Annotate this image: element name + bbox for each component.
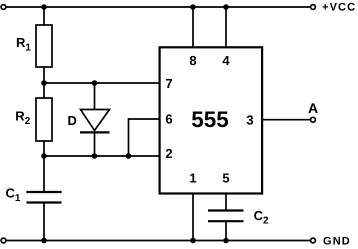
wire pin8 to rail <box>192 7 194 48</box>
wire C1 top lead <box>43 156 45 192</box>
wire pin6 bend <box>129 119 162 156</box>
svg-text:5: 5 <box>222 171 229 186</box>
svg-text:GND: GND <box>323 235 351 247</box>
wire C2 bottom lead <box>225 221 227 240</box>
terminal bottom-left <box>1 238 6 243</box>
svg-text:A: A <box>308 100 318 116</box>
svg-text:555: 555 <box>191 107 229 132</box>
capacitor C1 top plate <box>27 191 62 193</box>
wire C1 bottom lead <box>43 203 45 241</box>
capacitor C1 bottom plate <box>27 201 62 203</box>
junction pin4 rail <box>223 4 229 10</box>
op-amp U1 555 body <box>160 47 263 193</box>
svg-text:3: 3 <box>246 112 253 127</box>
wire top +VCC rail <box>6 6 310 8</box>
junction pin8 rail <box>190 4 196 10</box>
resistor R1 <box>36 25 52 67</box>
wire pin7 horizontal <box>44 82 161 84</box>
junction C2 ground <box>223 238 229 244</box>
wire R1 bottom lead <box>43 67 45 98</box>
terminal top-left <box>1 5 6 10</box>
diode D triangle <box>81 110 110 131</box>
terminal GND <box>311 238 316 243</box>
svg-text:+VCC: +VCC <box>322 2 356 14</box>
junction C1 ground <box>41 238 47 244</box>
svg-text:8: 8 <box>189 53 196 68</box>
junction diode bottom <box>92 153 98 159</box>
wire pin5 to C2 <box>225 193 227 211</box>
diode D anode lead <box>94 83 96 110</box>
svg-text:2: 2 <box>165 146 172 161</box>
resistor R2 <box>36 98 52 141</box>
svg-text:D: D <box>68 113 77 128</box>
wire pin4 to rail <box>225 7 227 48</box>
wire pin2 horizontal <box>44 155 161 157</box>
svg-text:1: 1 <box>189 171 196 186</box>
junction R2-C1 <box>41 153 47 159</box>
svg-text:4: 4 <box>222 53 230 68</box>
junction pin6 bottom <box>126 153 132 159</box>
wire pin1 to ground <box>192 193 194 241</box>
junction diode top <box>92 80 98 86</box>
diode D cathode lead <box>94 132 96 156</box>
wire bottom GND rail <box>6 240 310 242</box>
wire R1 top lead <box>43 7 45 25</box>
wire R2 bottom lead <box>43 141 45 156</box>
junction pin1 ground <box>190 238 196 244</box>
capacitor C2 bottom plate <box>208 220 244 222</box>
terminal +VCC <box>311 5 316 10</box>
terminal A <box>311 117 316 122</box>
svg-text:6: 6 <box>165 112 172 127</box>
junction R1 rail <box>41 4 47 10</box>
junction R1-R2 <box>41 80 47 86</box>
capacitor C2 top plate <box>208 209 244 211</box>
diode D cathode bar <box>80 131 110 133</box>
svg-text:7: 7 <box>165 76 172 91</box>
wire pin3 output <box>262 119 310 121</box>
